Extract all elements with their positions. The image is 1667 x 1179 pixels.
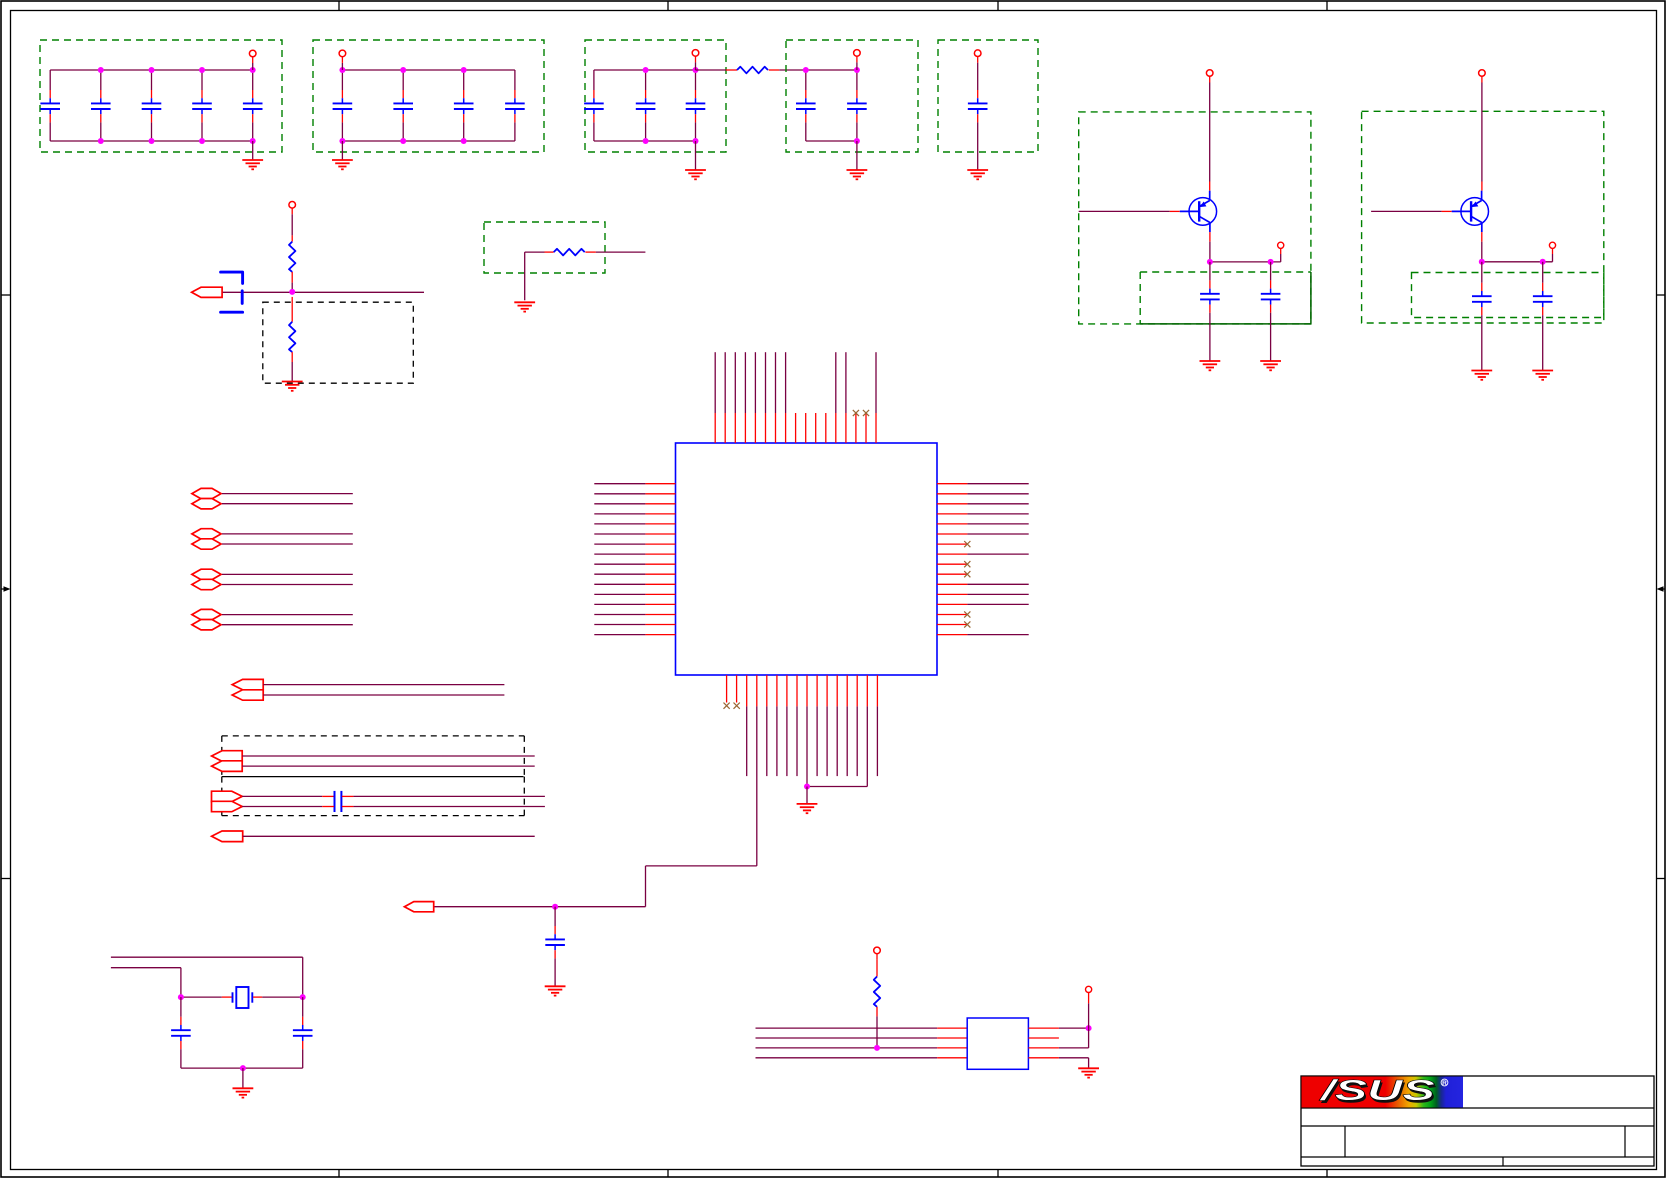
wire C17 to ground — [1270, 313, 1272, 361]
capacitor bank box PB3 — [585, 40, 726, 152]
port bidir pair 2 bottom — [192, 539, 221, 549]
wire hex net 1a — [222, 493, 353, 495]
transistor circuit box 1 — [1079, 112, 1311, 324]
wire power to R5 — [876, 960, 878, 977]
wire U2 out row1 — [1059, 1027, 1089, 1029]
port pair A bottom — [212, 761, 243, 772]
power pin VCC PB2 — [339, 50, 346, 63]
crystal Y1 — [233, 987, 253, 1008]
wire node A horizontal — [223, 291, 424, 293]
wire power lead PB3 — [695, 62, 697, 70]
wire hex net 1b — [222, 503, 353, 505]
power pin VCC PB1 — [249, 50, 256, 63]
junction XTAL nodes — [178, 994, 306, 1000]
ground PB5 — [967, 170, 988, 179]
wire XTAL ground lead — [242, 1068, 244, 1088]
capacitor C22 — [0, 0, 1, 1]
wire R3 to ground — [291, 352, 293, 381]
capacitor C11 — [636, 90, 656, 122]
port pair mid top — [232, 679, 263, 689]
wire top bus PB2 — [342, 69, 515, 71]
series resistor box — [484, 222, 605, 273]
wire power to Q2 emitter — [1481, 83, 1483, 191]
wire left column PB1 — [49, 70, 51, 141]
resistor R2 — [289, 242, 295, 272]
wire node C to C19 — [1542, 262, 1544, 283]
wire hex net 3a — [222, 573, 353, 575]
capacitor C12 — [686, 90, 706, 122]
capacitor bank box PB2 — [313, 40, 544, 152]
svg-text:R: R — [1442, 1080, 1447, 1087]
ground C16 — [1200, 361, 1221, 370]
wire net B2 left — [242, 806, 334, 808]
wire cap column 3 PB3 — [695, 70, 697, 141]
wire node B up — [1280, 248, 1282, 262]
bypass cap box 2 — [1412, 273, 1604, 318]
wire net A2 — [242, 765, 535, 767]
wire C24 down — [302, 1049, 304, 1068]
jumper JP1 — [221, 272, 243, 312]
junction R5 row3 — [874, 1045, 880, 1051]
wire node to C20 — [554, 907, 556, 926]
wire hex net 4a — [222, 614, 353, 616]
power pin VCC PB4 — [854, 50, 861, 63]
border center arrow right — [1657, 586, 1666, 592]
capacitor C3 — [142, 90, 162, 122]
capacitor C7 — [393, 90, 413, 122]
bypass cap box 1 — [1140, 272, 1311, 324]
capacitor C24 — [293, 1017, 313, 1049]
svg-text:/SUS: /SUS — [1318, 1075, 1436, 1107]
U1 left pin stubs — [645, 484, 675, 635]
capacitor C17 — [1261, 280, 1281, 312]
port pair A top — [212, 751, 243, 762]
port bidir pair 1 bottom — [192, 499, 221, 509]
port bidir pair 2 top — [192, 529, 221, 539]
bus group box lower — [222, 777, 525, 816]
ground C20 — [545, 986, 566, 995]
wire R4 output — [585, 251, 645, 253]
bus group shared edge — [222, 776, 524, 778]
no-connect X right pins — [964, 541, 970, 628]
power pin VCC PB3 — [692, 50, 699, 63]
wire cap column 2 PB3 — [645, 70, 647, 141]
wire ground lead PB3 — [695, 141, 697, 170]
ground U2 — [1078, 1068, 1099, 1077]
ground PB3 — [685, 170, 706, 179]
wire C19 to ground — [1542, 315, 1544, 370]
power pin VCC R5 — [874, 947, 881, 960]
no-connect X bottom pins — [724, 703, 740, 709]
port net input — [192, 287, 223, 297]
wire top bus PB4 — [806, 69, 857, 71]
wire net B2 right — [342, 806, 545, 808]
capacitor bank box PB5 — [938, 40, 1038, 152]
junction XTAL ground — [240, 1065, 246, 1071]
wire power to R2 — [291, 214, 293, 241]
capacitor bank box PB1 — [40, 40, 282, 152]
power pin aux Q2 — [1549, 242, 1555, 248]
wire cap column 1 PB3 — [593, 70, 595, 141]
wire node C up — [1552, 248, 1554, 261]
wire hex net 3b — [222, 584, 353, 586]
U1 top pin stubs — [715, 413, 876, 443]
wire U1 right nets — [967, 484, 1028, 635]
wire U2 out row3 — [1059, 1028, 1089, 1048]
title block column lines — [1345, 1126, 1625, 1166]
power pin VCC R2 — [289, 202, 296, 215]
port bidir pair 3 top — [192, 569, 221, 579]
wire U2 power riser — [1088, 993, 1090, 1029]
capacitor C1 — [40, 90, 60, 122]
wire cap column 1 PB2 — [341, 70, 343, 141]
port pair B bottom — [212, 801, 243, 811]
IC U1 body — [676, 443, 938, 675]
wire power lead PB4 — [856, 62, 858, 70]
wire left node to Y1 — [181, 996, 232, 998]
capacitor C8 — [454, 90, 474, 122]
wire hex net 2a — [222, 533, 353, 535]
wire Q2 base — [1371, 210, 1452, 212]
U1 bottom pin stubs — [727, 675, 878, 706]
capacitor C13 — [796, 90, 816, 122]
power pin aux Q1 — [1278, 242, 1284, 248]
wire cap column 3 PB1 — [151, 70, 153, 141]
port net output — [404, 902, 433, 912]
wire net C — [243, 835, 535, 837]
ground PB4 — [847, 170, 868, 179]
wire Q1 base — [1079, 210, 1180, 212]
wire node C to C18 — [1481, 262, 1483, 283]
wire U2 input row 1 — [756, 1027, 968, 1029]
wire cap column 1 PB4 — [805, 70, 807, 141]
wire net B1 right — [342, 795, 545, 797]
capacitor C9 — [505, 90, 525, 122]
wire hex net 4b — [222, 624, 353, 626]
wire U2 out row4 — [1059, 1058, 1089, 1068]
title block frame — [1301, 1076, 1654, 1166]
power pin VCC Q1 — [1206, 70, 1213, 83]
resistor R4 — [554, 249, 585, 256]
wire node C horizontal — [1482, 261, 1553, 263]
junction U1 ground node — [804, 784, 810, 790]
ASUS logo — [1302, 1075, 1464, 1109]
wire routed net from U1 — [434, 706, 757, 906]
wire ground lead PB4 — [856, 141, 858, 170]
junction dots PB3 — [643, 67, 699, 144]
wire corner to R4 — [525, 251, 554, 253]
U2 right pin stubs — [1028, 1028, 1059, 1058]
junction U2 power node — [1086, 1025, 1092, 1031]
port bidir pair 3 bottom — [192, 579, 221, 589]
wire net A1 — [242, 755, 535, 757]
no-connect X top pins — [853, 410, 869, 416]
wire C18 to ground — [1481, 315, 1483, 370]
junction dots PB1 — [98, 67, 256, 144]
capacitor C10 — [584, 90, 604, 122]
title block row lines — [1301, 1108, 1654, 1157]
wire bottom bus PB3 — [594, 140, 696, 142]
wire C23 down — [180, 1049, 182, 1068]
ground R3 — [282, 382, 303, 391]
capacitor C15 — [968, 90, 988, 122]
wire Q2 collector to node C — [1481, 232, 1483, 262]
capacitor C5 — [243, 90, 263, 122]
port pair mid bottom — [232, 690, 263, 700]
capacitor C4 — [192, 90, 212, 122]
wire C16 to ground — [1209, 313, 1211, 361]
wire mid net a — [263, 684, 504, 686]
U1 right pin stubs — [937, 484, 967, 635]
junction dots PB2 — [339, 67, 466, 144]
wire U1 ground lead — [806, 787, 808, 804]
ground R4 — [514, 302, 535, 311]
wire U1 pin to GND bend — [807, 706, 867, 786]
capacitor C18 — [1472, 283, 1492, 315]
port bidir pair 4 top — [192, 609, 221, 619]
wire XTAL net 2 — [111, 968, 181, 997]
wire U2 input row 2 — [756, 1037, 968, 1039]
wire cap column 4 PB1 — [201, 70, 203, 141]
wire R1 to PB4 bus — [769, 69, 806, 71]
transistor Q2 — [1452, 191, 1489, 232]
port pair B top — [212, 791, 243, 801]
wire left node to C23 — [180, 997, 182, 1017]
wire bottom bus PB2 — [342, 140, 515, 142]
wire mid net b — [263, 694, 504, 696]
wire top bus PB1 — [50, 69, 253, 71]
wire cap column 2 PB4 — [856, 70, 858, 141]
resistor R3 — [289, 322, 295, 352]
wire hex net 2b — [222, 543, 353, 545]
port bidir pair 4 bottom — [192, 620, 221, 630]
capacitor C19 — [1533, 283, 1553, 315]
wire XTAL net 1 — [111, 957, 303, 997]
capacitor C2 — [91, 90, 111, 122]
wire C15 to ground — [977, 122, 979, 170]
pull-down box — [263, 302, 414, 383]
wire U2 input row 3 — [756, 1047, 968, 1049]
wire C20 to ground — [554, 958, 556, 986]
wire XTAL ground bus — [181, 1067, 303, 1069]
port single C — [212, 831, 243, 842]
wire power lead PB2 — [341, 63, 343, 70]
port bidir pair 1 top — [192, 488, 221, 498]
ground C17 — [1260, 361, 1281, 370]
wire top bus PB3 — [594, 69, 696, 71]
capacitor C23 — [171, 1017, 191, 1049]
power pin VCC U2 — [1086, 986, 1092, 992]
border center arrow left — [1, 586, 11, 592]
resistor R5 — [874, 977, 880, 1007]
wire corner down — [524, 252, 526, 300]
ground U1 — [797, 804, 818, 813]
wire node A to R3 — [291, 297, 293, 322]
wire cap column 2 PB1 — [100, 70, 102, 141]
ground PB2 — [332, 160, 353, 169]
resistor R1 — [737, 67, 768, 74]
transistor circuit box 2 — [1362, 111, 1604, 323]
junction decoupling node — [552, 904, 558, 910]
junction dots PB4 — [803, 67, 860, 144]
node C junctions — [1479, 259, 1546, 265]
wire bottom bus PB4 — [806, 140, 857, 142]
wire cap column 2 PB2 — [402, 70, 404, 141]
ground C19 — [1532, 371, 1553, 380]
IC U2 body — [967, 1018, 1028, 1069]
wire cap column 5 PB1 — [252, 70, 254, 141]
capacitor C20 — [545, 926, 565, 958]
bus group box upper — [222, 736, 525, 777]
ground XTAL — [233, 1088, 254, 1097]
wire Y1 to right node — [253, 996, 303, 998]
node B junctions — [1207, 259, 1274, 265]
wire power to C15 — [977, 63, 979, 90]
wire node B horizontal — [1210, 261, 1281, 263]
wire ground lead PB2 — [341, 141, 343, 160]
wire cap column 3 PB2 — [463, 70, 465, 141]
wire bus to R1 — [696, 69, 738, 71]
wire power lead PB1 — [252, 63, 254, 70]
wire power to Q1 emitter — [1209, 83, 1211, 191]
wire U1 bottom nets — [747, 706, 878, 776]
wire node B to C17 — [1270, 262, 1272, 281]
wire U1 left nets — [594, 484, 645, 635]
capacitor C14 — [847, 90, 867, 122]
wire net B1 left — [242, 795, 334, 797]
wire ground lead PB1 — [252, 141, 254, 160]
capacitor C21 — [335, 791, 342, 812]
ground PB1 — [242, 160, 263, 169]
power pin VCC Q2 — [1479, 70, 1486, 83]
wire node B to C16 — [1209, 262, 1211, 281]
wire U2 input row 4 — [756, 1057, 968, 1059]
wire U1 top nets — [715, 352, 876, 413]
wire U1 pin GND net — [806, 706, 808, 786]
node A junction — [289, 289, 295, 295]
capacitor C6 — [333, 90, 353, 122]
wire right node to C24 — [302, 997, 304, 1017]
wire cap column 4 PB2 — [514, 70, 516, 141]
capacitor bank box PB4 — [786, 40, 918, 152]
transistor Q1 — [1180, 191, 1217, 232]
wire R2 to node A — [291, 272, 293, 292]
wire Q1 collector to node B — [1209, 232, 1211, 262]
capacitor C16 — [1200, 280, 1220, 312]
wire bottom bus PB1 — [50, 140, 253, 142]
wire R5 to row3 — [876, 1007, 878, 1048]
power pin VCC PB5 — [974, 50, 981, 63]
ground C18 — [1471, 371, 1492, 380]
